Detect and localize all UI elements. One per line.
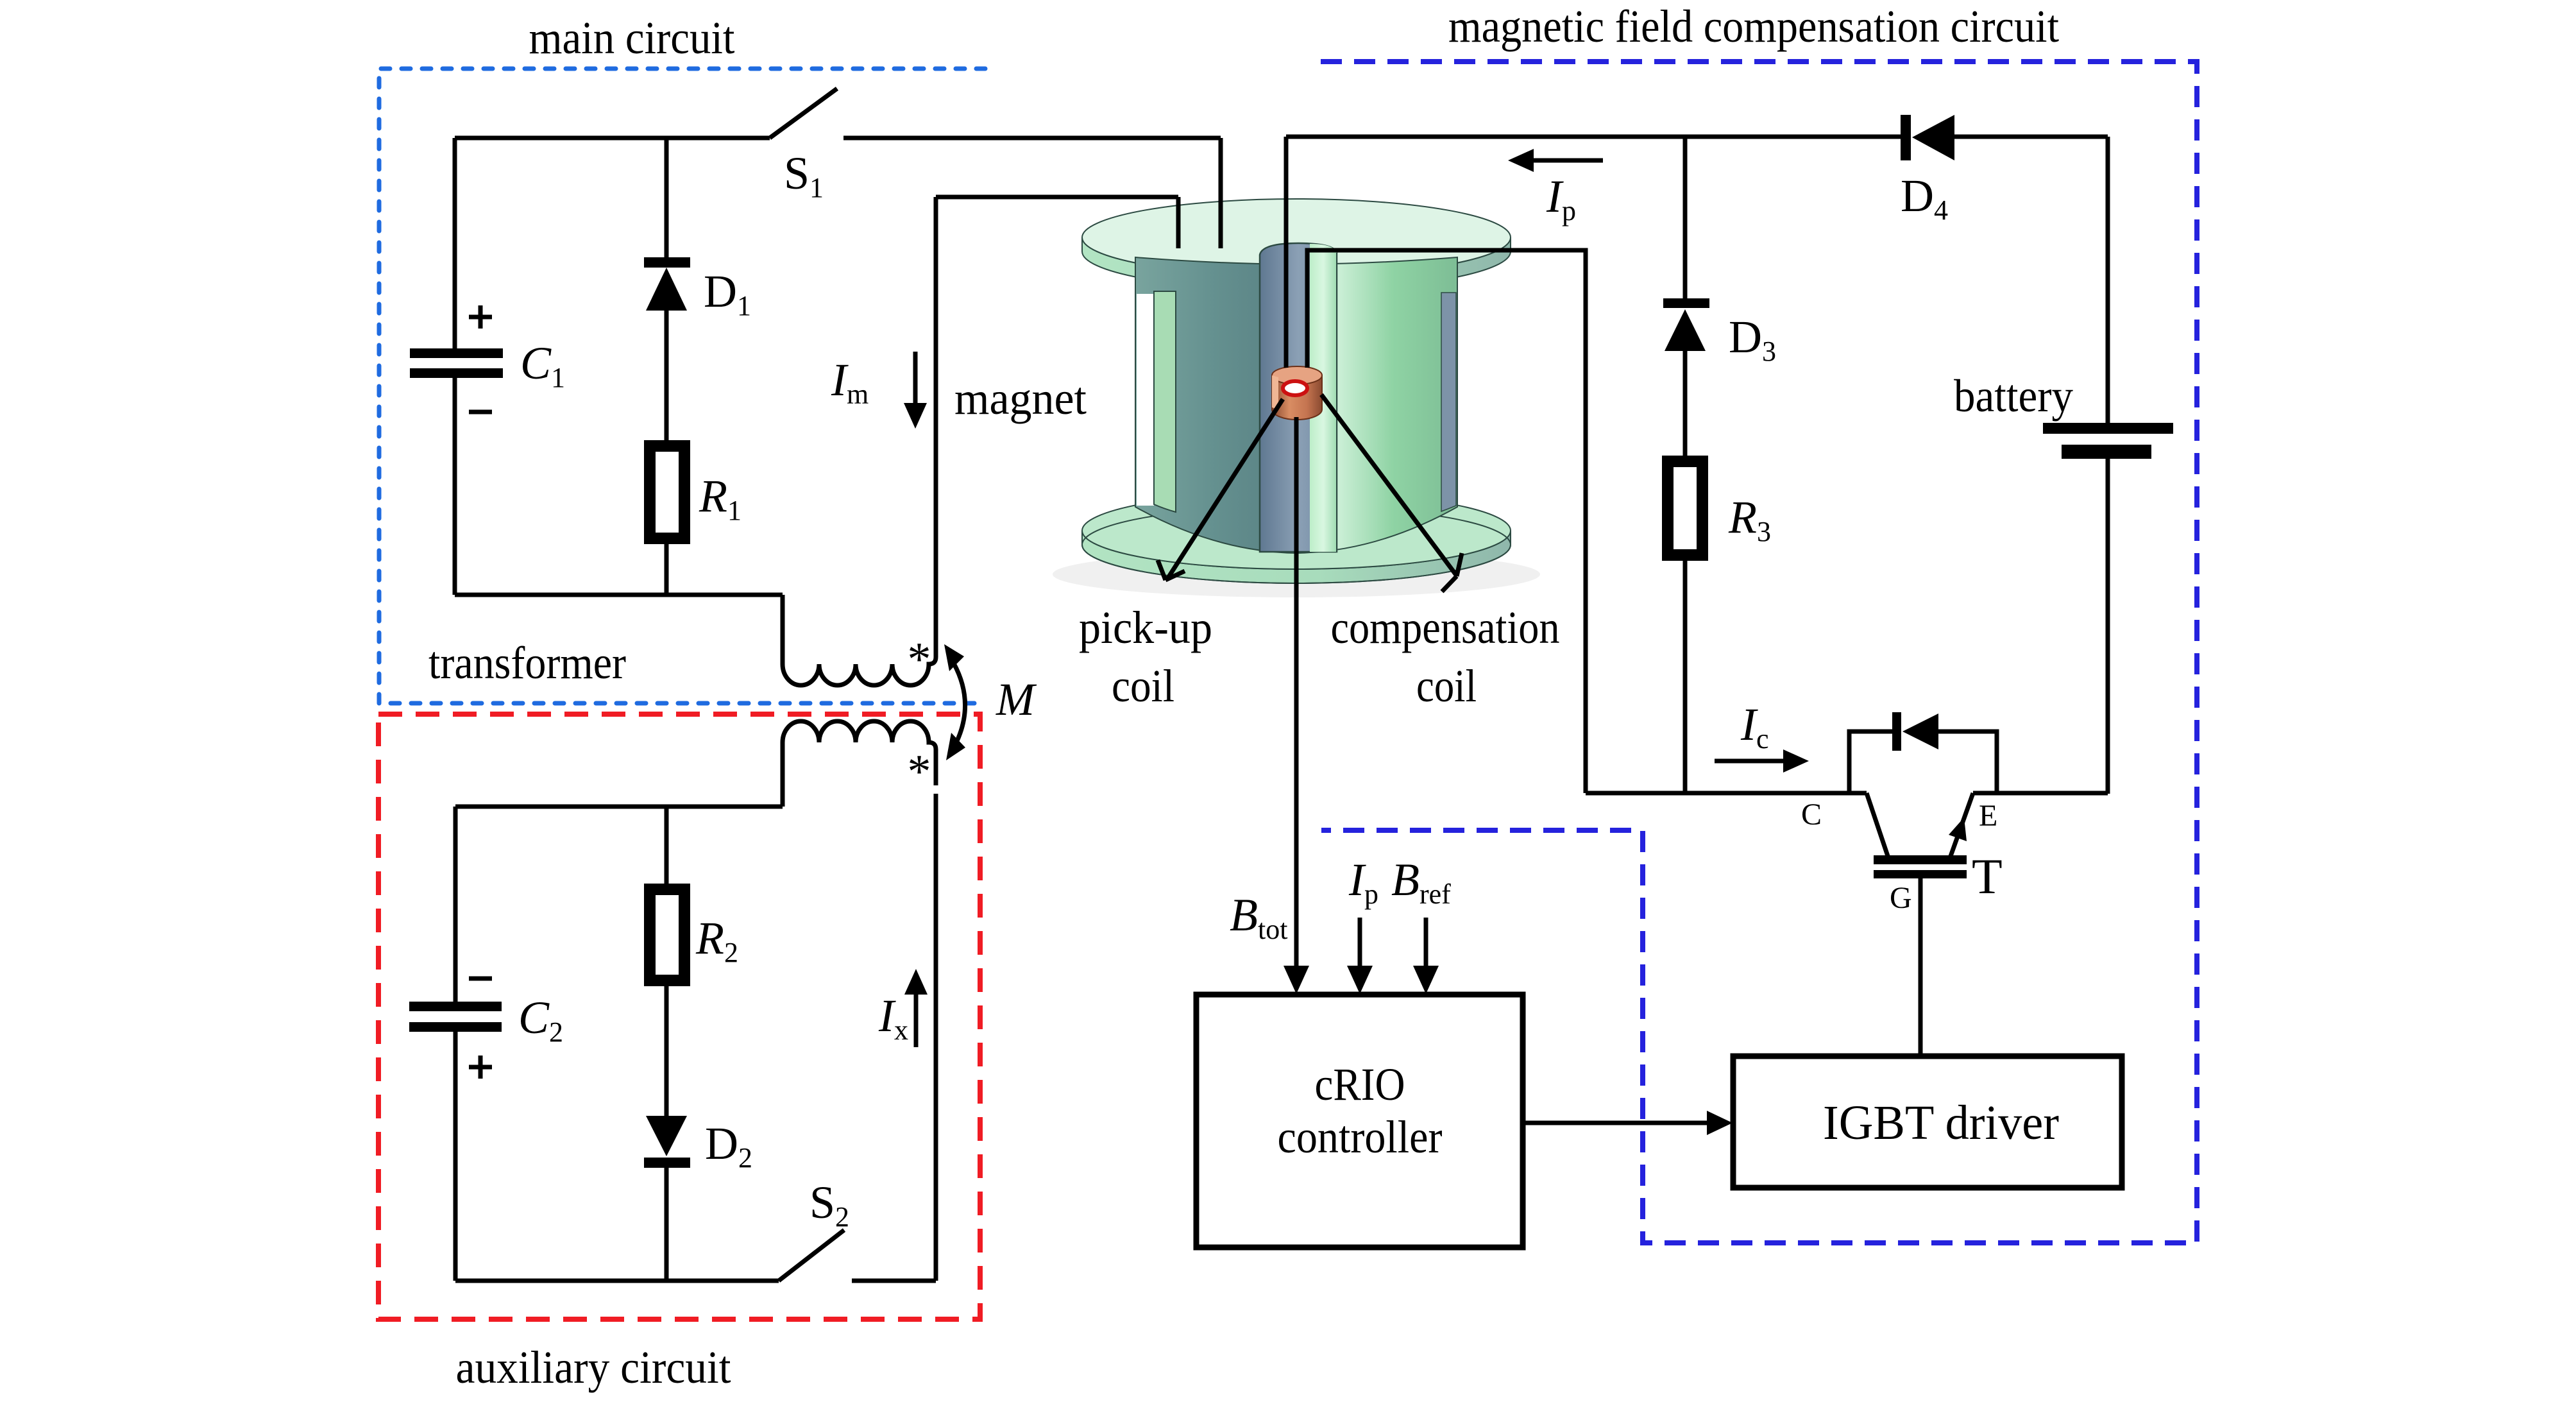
wire main bottom bus bbox=[455, 593, 783, 597]
switch S2 bbox=[779, 1230, 844, 1281]
transformer primary winding bbox=[783, 657, 936, 685]
svg-text:*: * bbox=[908, 633, 931, 686]
svg-text:C: C bbox=[1801, 798, 1822, 832]
wire R2 to D2 bbox=[665, 986, 669, 1116]
magnet cut-away opening left bbox=[1137, 294, 1154, 506]
wire C1 bottom lead bbox=[453, 378, 457, 595]
diode D4 bbox=[1901, 115, 1911, 160]
svg-text:battery: battery bbox=[1954, 370, 2073, 422]
wire to transformer primary bbox=[781, 595, 785, 664]
wire S2 right contact bbox=[852, 1279, 936, 1283]
wire R1 bottom lead bbox=[665, 544, 669, 595]
wire secondary right lead upper bbox=[934, 749, 938, 785]
wire magnet return top bbox=[936, 195, 1178, 200]
wire aux bottom bus bbox=[455, 1279, 779, 1283]
wire D2 bottom lead bbox=[665, 1168, 669, 1281]
battery bbox=[2043, 423, 2173, 434]
svg-text:coil: coil bbox=[1112, 660, 1174, 712]
magnet inner channel bbox=[1310, 244, 1337, 552]
wire R2 top lead bbox=[665, 807, 669, 884]
svg-text:*: * bbox=[908, 746, 931, 798]
capacitor C1 bbox=[410, 348, 503, 358]
wire collector bus bbox=[1586, 791, 1867, 796]
C2 minus sign bbox=[469, 977, 492, 981]
IGBT driver box bbox=[1733, 1056, 2122, 1188]
wire into magnet left terminal bbox=[1219, 138, 1223, 248]
magnet body right half bbox=[1296, 257, 1457, 553]
resistor R3 bbox=[1662, 456, 1708, 561]
wire IGBT gate lead bbox=[1919, 878, 1923, 1056]
freewheel diode bbox=[1892, 712, 1901, 751]
svg-text:coil: coil bbox=[1416, 660, 1477, 712]
main circuit dashed box bbox=[379, 69, 985, 703]
svg-text:M: M bbox=[996, 674, 1037, 725]
wire secondary right lead lower bbox=[934, 794, 938, 1281]
wire freewheel diode left leg bbox=[1849, 731, 1892, 793]
wire top bus to D4 bbox=[1286, 135, 1901, 139]
wire top bus left of S1 bbox=[455, 136, 770, 141]
wire cRIO to IGBT driver arrow bbox=[1523, 1121, 1709, 1125]
svg-text:controller: controller bbox=[1278, 1111, 1443, 1163]
auxiliary circuit dashed box bbox=[378, 714, 980, 1319]
compensation coil annotation arrow bbox=[1321, 395, 1456, 575]
svg-text:E: E bbox=[1979, 799, 1997, 833]
wire Btot from pick-up coil bbox=[1294, 417, 1299, 968]
svg-text:main circuit: main circuit bbox=[529, 12, 735, 64]
magnet top flange bbox=[1082, 237, 1511, 290]
C1 plus sign bbox=[469, 305, 492, 329]
svg-text:transformer: transformer bbox=[428, 637, 626, 688]
signal Bref arrow into cRIO bbox=[1424, 918, 1428, 968]
svg-text:auxiliary circuit: auxiliary circuit bbox=[456, 1342, 731, 1393]
wire into magnet right terminal bbox=[1176, 197, 1181, 248]
cRIO controller box bbox=[1196, 995, 1523, 1247]
diode D1 bbox=[644, 257, 690, 268]
wire D1 to R1 bbox=[665, 311, 669, 440]
wire emitter bus bbox=[1973, 791, 2108, 796]
wire D3 branch top bbox=[1683, 137, 1688, 298]
IGBT T bbox=[1867, 793, 1888, 858]
svg-text:compensation: compensation bbox=[1331, 602, 1560, 653]
wire C2 top lead bbox=[453, 807, 458, 1002]
svg-text:magnetic field compensation ci: magnetic field compensation circuit bbox=[1448, 1, 2059, 52]
diode D3 bbox=[1663, 298, 1709, 308]
current Im arrow bbox=[913, 352, 918, 404]
wire battery bottom lead bbox=[2106, 459, 2110, 794]
switch S1 bbox=[770, 89, 837, 138]
wire D1 top lead bbox=[665, 138, 669, 257]
svg-text:IGBT driver: IGBT driver bbox=[1823, 1096, 2059, 1150]
signal Ip arrow into cRIO bbox=[1358, 918, 1362, 968]
wire R3 bottom lead bbox=[1683, 561, 1688, 793]
wire battery top lead bbox=[2106, 137, 2110, 423]
svg-text:cRIO: cRIO bbox=[1315, 1059, 1405, 1110]
wire magnet return vertical bbox=[934, 197, 938, 657]
resistor R1 bbox=[644, 440, 690, 544]
magnet bottom flange bbox=[1082, 531, 1511, 583]
wire top bus right of S1 bbox=[843, 136, 1221, 141]
C1 minus sign bbox=[469, 410, 492, 415]
compensation coil cylinder bbox=[1272, 366, 1322, 420]
current Ip arrow bbox=[1516, 158, 1603, 163]
magnetic field compensation circuit dashed box bbox=[1321, 62, 2197, 1243]
wire C1 top lead bbox=[453, 138, 457, 348]
magnet central column (bore) bbox=[1260, 243, 1337, 552]
wire C2 bottom lead bbox=[453, 1032, 458, 1281]
wire pick-up coil lead down bore bbox=[1284, 137, 1289, 368]
diode D2 bbox=[646, 1116, 687, 1156]
wire D3 to R3 bbox=[1683, 351, 1688, 456]
svg-text:T: T bbox=[1972, 848, 2003, 904]
C2 plus sign bbox=[469, 1056, 492, 1079]
mutual inductance M arrow bbox=[954, 663, 965, 742]
magnet body left cut face bbox=[1135, 257, 1296, 553]
current Ic arrow bbox=[1715, 759, 1784, 764]
svg-text:pick-up: pick-up bbox=[1079, 602, 1212, 653]
resistor R2 bbox=[644, 884, 690, 986]
magnet inner shell strip right bbox=[1441, 293, 1456, 511]
transformer secondary winding bbox=[783, 721, 936, 749]
current Ix arrow bbox=[914, 993, 919, 1047]
capacitor C2 bbox=[409, 1002, 502, 1011]
svg-text:magnet: magnet bbox=[954, 373, 1087, 424]
wire secondary left lead bbox=[781, 742, 785, 807]
magnet shadow bbox=[1053, 551, 1540, 597]
svg-text:G: G bbox=[1890, 881, 1912, 915]
wire compensation coil lead bbox=[1307, 250, 1586, 793]
pick-up coil annotation arrow bbox=[1167, 399, 1283, 579]
wire D4 to battery corner bbox=[1954, 135, 2108, 139]
wire aux top bus bbox=[455, 805, 783, 809]
wire freewheel diode right leg bbox=[1938, 731, 1997, 793]
